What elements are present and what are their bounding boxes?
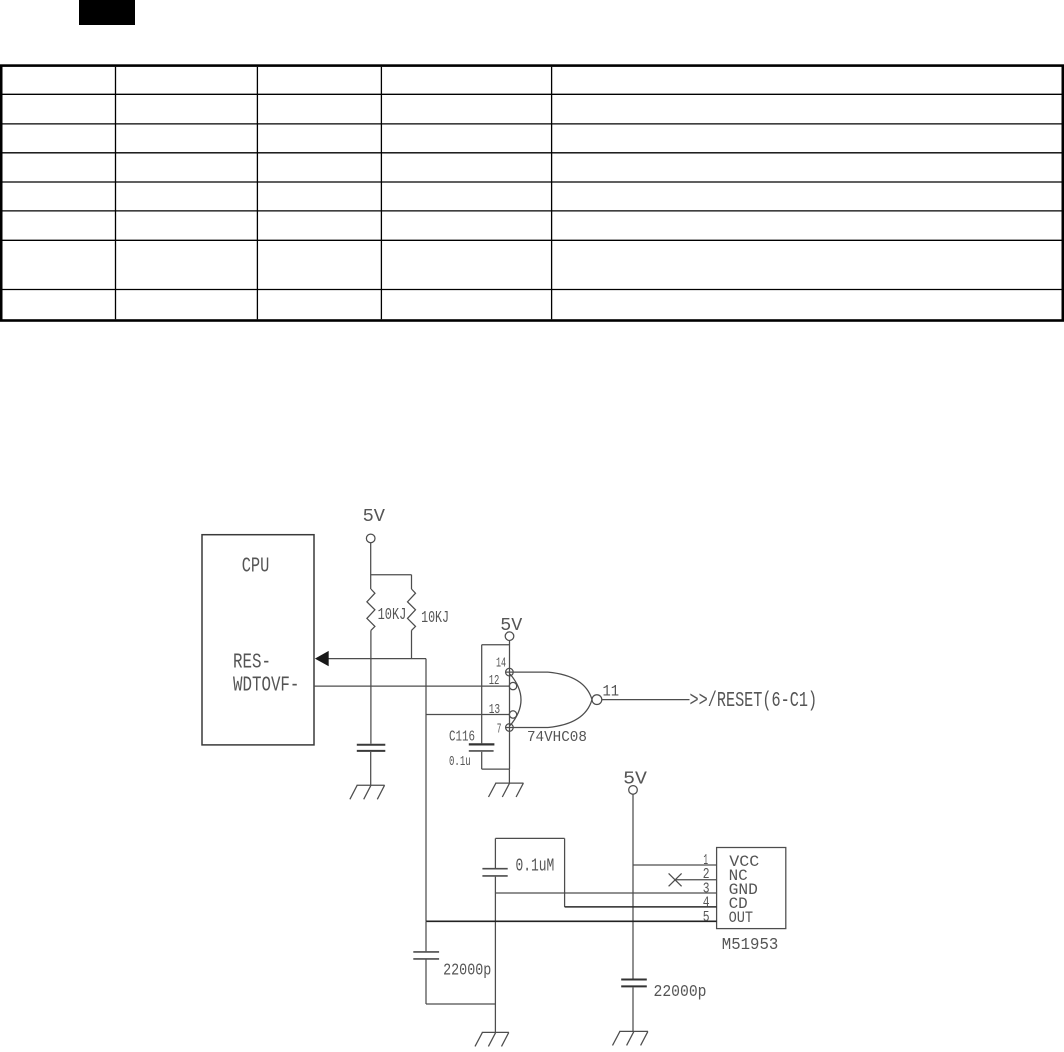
svg-text:WDTOVF-: WDTOVF- [233, 674, 299, 697]
wire R2 top lead [411, 575, 413, 589]
gate pin 14 circle [506, 668, 514, 676]
svg-text:5V: 5V [623, 769, 647, 789]
table outer border [1, 66, 1063, 321]
capacitor C-D plates (right 22000p) [621, 979, 647, 981]
svg-text:11: 11 [603, 682, 620, 700]
wire C-C to GND net [426, 1003, 495, 1005]
wire RES- net horizontal [329, 658, 427, 660]
wire pin4 CD [565, 906, 717, 908]
svg-text:10KJ: 10KJ [378, 605, 407, 624]
ground G3 [475, 1032, 509, 1046]
wire C-C top lead [425, 921, 427, 951]
wire stem to ground G2 [508, 769, 510, 783]
gate output pin 11 circle [592, 695, 602, 705]
wire branch to R2 [371, 574, 412, 576]
svg-text:C116: C116 [449, 728, 475, 745]
IC U2 M51953 box [717, 848, 786, 929]
black header box [79, 0, 135, 25]
arrow into CPU RES- [315, 651, 329, 666]
svg-text:RES-: RES- [233, 652, 271, 675]
table column lines [116, 67, 552, 319]
wire loop top [482, 644, 510, 646]
wire 0.1uM box right side [564, 838, 566, 907]
svg-text:12: 12 [489, 673, 500, 689]
svg-text:0.1u: 0.1u [449, 754, 471, 770]
power 5V (middle) circle [629, 786, 638, 795]
svg-text:13: 13 [489, 702, 500, 718]
svg-text:74VHC08: 74VHC08 [527, 729, 587, 746]
svg-text:M51953: M51953 [722, 936, 779, 955]
capacitor C-A plates (under R1) [357, 744, 386, 746]
wire loop left lower [481, 752, 483, 769]
power 5V (right) circle [505, 632, 514, 641]
wire 0.1uM box top [495, 837, 564, 839]
wire loop bottom [482, 768, 510, 770]
ground G2 [489, 783, 524, 797]
power 5V (left) circle [366, 534, 375, 543]
gate pin 7 circle [506, 724, 514, 732]
wire loop left upper [481, 645, 483, 744]
svg-text:0.1uM: 0.1uM [516, 857, 555, 877]
wire R1 bottom lead to capacitor [370, 630, 372, 743]
ground G1 [350, 785, 385, 799]
ground G4 [613, 1031, 649, 1045]
wire pin3 GND [495, 892, 716, 894]
wire /RESET output [602, 699, 690, 701]
capacitor C116 plates [469, 743, 495, 745]
capacitor C-C plates (left 22000p) [413, 951, 439, 953]
svg-text:OUT: OUT [729, 909, 754, 927]
wire 5V rail down through pins 14,7 [509, 641, 511, 770]
wire 0.1uM left upper lead [494, 838, 496, 868]
wire 0.1uM bottom lead down to ground G3 [494, 877, 496, 1033]
wire C-C bottom lead [425, 960, 427, 1005]
wire R2 bottom lead to RES- net [411, 630, 413, 658]
no-connect X on pin2 [669, 873, 682, 886]
svg-text:5V: 5V [363, 507, 386, 527]
svg-text:22000p: 22000p [443, 962, 491, 981]
wire vertical net A (RES- down to OUT) [425, 659, 427, 922]
svg-text:5V: 5V [500, 616, 522, 636]
wire C-D bottom lead [632, 987, 634, 1031]
gate pin 13 circle [509, 711, 516, 718]
wire to gate pin 13 [426, 714, 509, 716]
svg-text:CPU: CPU [242, 556, 270, 579]
wire pin5 OUT [426, 920, 717, 922]
wire C-A bottom lead [370, 752, 372, 785]
table row lines [2, 94, 1062, 289]
svg-text:10KJ: 10KJ [421, 608, 449, 627]
resistor R2 10KJ zigzag [408, 589, 416, 630]
svg-text:7: 7 [497, 722, 502, 738]
op-amp gate U1 74VHC08 body [506, 671, 548, 673]
resistor R1 10KJ zigzag [367, 589, 375, 630]
svg-text:5: 5 [703, 909, 710, 926]
svg-text:14: 14 [496, 656, 506, 672]
wire 5V mid rail down [632, 794, 634, 979]
wire pin2 NC [675, 879, 717, 881]
svg-text:22000p: 22000p [654, 983, 707, 1002]
wire 5V left down [370, 543, 372, 589]
wire WDTOVF- to gate pin 12 [314, 685, 509, 687]
capacitor C-B 0.1uM plates [482, 868, 507, 870]
gate pin 12 circle [509, 682, 516, 689]
svg-text:>>/RESET(6-C1): >>/RESET(6-C1) [690, 690, 818, 713]
CPU U-CPU box [202, 535, 314, 745]
wire pin1 VCC [633, 864, 717, 866]
